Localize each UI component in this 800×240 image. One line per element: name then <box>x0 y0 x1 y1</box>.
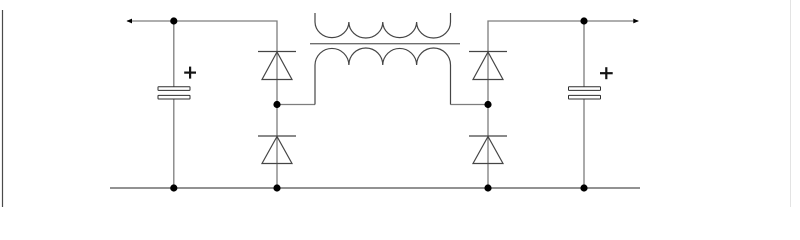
node: right mid junction <box>484 101 491 108</box>
node: bottom junction at C1 <box>170 184 177 191</box>
capacitor C2 polarity plus sign <box>600 67 613 79</box>
node: top-right junction <box>580 17 587 24</box>
left image-edge border line <box>2 10 4 207</box>
right image-edge faint border line <box>790 0 792 207</box>
node: bottom junction at D2 <box>273 184 280 191</box>
diode D4 (right bottom) <box>469 136 507 164</box>
transformer T1 secondary winding (bottom, 4 turns) <box>315 48 451 105</box>
arrow left (output terminal, pointing left) <box>126 19 132 24</box>
capacitor C2 (right, electrolytic) plates <box>569 87 601 99</box>
wire: right mid connector to transformer secondary <box>451 104 489 106</box>
node: bottom junction at C2 <box>580 184 587 191</box>
wire: right capacitor branch lower <box>583 99 585 188</box>
transformer T1 core line <box>310 43 460 45</box>
wire: right capacitor branch upper <box>583 21 585 87</box>
wire: left capacitor branch upper <box>173 21 175 87</box>
wire: left mid connector to transformer secondary <box>277 104 315 106</box>
node: left mid junction <box>273 101 280 108</box>
transformer T1 primary winding (top, 4 turns) <box>315 13 451 38</box>
wire: left capacitor branch lower <box>173 99 175 188</box>
wire: top-left rail with corner down to D1 <box>127 21 277 52</box>
capacitor C1 (left, electrolytic) plates <box>158 87 190 99</box>
wire: top-right rail with corner down from D3 <box>488 21 638 52</box>
arrow right (output terminal, pointing right) <box>633 19 639 24</box>
wire: right diode branch vertical <box>487 52 489 188</box>
diode D3 (right top) <box>469 52 507 80</box>
diode D1 (left top) <box>258 52 296 80</box>
wire: left diode branch vertical <box>276 52 278 188</box>
diode D2 (left bottom) <box>258 136 296 164</box>
node: bottom junction at D4 <box>484 184 491 191</box>
capacitor C1 polarity plus sign <box>184 67 196 79</box>
node: top-left junction <box>170 17 177 24</box>
wire: bottom rail <box>110 187 640 189</box>
